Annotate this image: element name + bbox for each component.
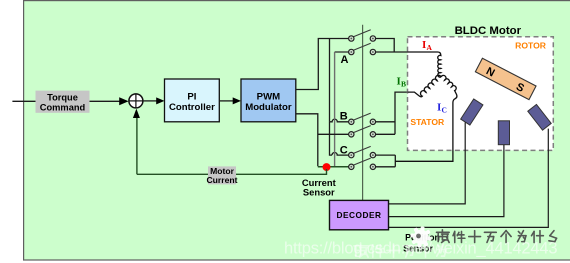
- wire phase B join: [376, 92, 408, 134]
- svg-text:Torque: Torque: [47, 92, 78, 102]
- wire PWM bottom output down to current bus: [296, 114, 318, 166]
- svg-text:PWM: PWM: [257, 91, 280, 102]
- label Motor Current: [206, 166, 237, 185]
- feedback up-arrow into summing junction: [133, 109, 140, 175]
- wire current bus (green): [318, 166, 349, 168]
- wire gray bus from A bottom switch down to current bus: [335, 51, 351, 53]
- watermark gear icon: [410, 226, 431, 247]
- wire to summing junction: [90, 97, 129, 105]
- wire sensor 1 to decoder: [389, 123, 466, 204]
- wire sensor 2 to decoder: [389, 145, 504, 217]
- wire +bus branch to B and C top switches: [329, 39, 331, 122]
- op-block PWM Modulator: [241, 79, 296, 122]
- current sensor red dot: [323, 163, 331, 171]
- wire B bottom row: [318, 133, 349, 135]
- svg-text:https://blog.csdn.net/weixin_4: https://blog.csdn.net/weixin_44142443: [284, 240, 557, 258]
- svg-text:Modulator: Modulator: [245, 102, 292, 113]
- svg-text:Sensor: Sensor: [303, 186, 335, 197]
- svg-text:C: C: [340, 145, 348, 157]
- svg-text:A: A: [427, 43, 433, 52]
- svg-text:B: B: [340, 111, 348, 123]
- rotor magnet bar N/S: [475, 58, 536, 99]
- svg-text:ROTOR: ROTOR: [515, 41, 547, 51]
- wire input: [12, 100, 35, 102]
- wire sensor 3 to decoder: [389, 129, 549, 228]
- svg-text:A: A: [341, 54, 349, 66]
- BLDC motor dashed box: [408, 37, 554, 151]
- op-block DECODER: [330, 200, 389, 229]
- op-block PI Controller: [165, 79, 220, 122]
- svg-text:STATOR: STATOR: [410, 117, 445, 127]
- position sensor 3: [528, 104, 551, 130]
- wire motor current feedback: [137, 169, 327, 174]
- winding phase A: [408, 52, 441, 77]
- svg-text:BLDC Motor: BLDC Motor: [455, 25, 522, 37]
- svg-text:PI: PI: [187, 91, 196, 102]
- wire C top with hop over gray bus: [332, 153, 349, 156]
- wire PI to PWM: [219, 97, 241, 104]
- winding phase B: [408, 75, 441, 97]
- svg-text:C: C: [442, 106, 447, 115]
- wire summing to PI: [143, 97, 165, 104]
- winding phase C with lead to switches: [395, 75, 457, 161]
- position sensor 2: [498, 121, 509, 145]
- svg-text:Controller: Controller: [169, 102, 215, 113]
- svg-text:B: B: [401, 80, 406, 89]
- wire B top with hop over gray bus: [330, 119, 349, 122]
- wire switch common to decoder: [362, 25, 364, 201]
- wire PWM top output to +bus: [296, 39, 349, 90]
- node Torque Command: [36, 91, 90, 113]
- watermark white chinese: [354, 243, 368, 257]
- wire phase C join: [376, 155, 453, 167]
- svg-text:Command: Command: [40, 102, 86, 112]
- summing junction: [129, 94, 143, 108]
- svg-text:Current: Current: [206, 175, 237, 185]
- watermark chinese gray: [437, 230, 450, 243]
- position sensor 1: [461, 99, 483, 125]
- wire phase A join: [376, 39, 437, 53]
- label IA: [397, 39, 447, 115]
- svg-text:DECODER: DECODER: [337, 210, 382, 220]
